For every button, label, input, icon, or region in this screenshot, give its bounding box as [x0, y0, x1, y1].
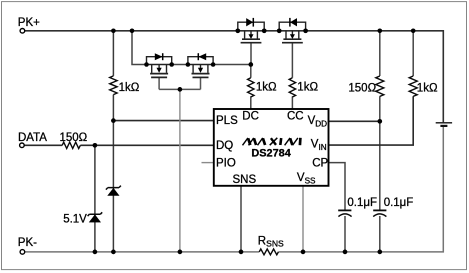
resistor 1k (CC): [289, 78, 295, 97]
resistor 1k (DC): [248, 78, 254, 97]
resistor 150 (VDD): [376, 76, 384, 96]
node Q3 left: [144, 62, 149, 67]
wire PK- bottom rail: [25, 126, 444, 252]
node rail-1k right: [411, 29, 416, 34]
svg-text:DATA: DATA: [18, 132, 47, 144]
zener diode 5.1V: [88, 212, 103, 222]
battery cell: [436, 123, 452, 126]
svg-text:1kΩ: 1kΩ: [119, 82, 140, 94]
wire small FET gates common: [159, 77, 200, 89]
node Q3 right: [169, 62, 174, 67]
node Q2 right: [303, 28, 308, 33]
svg-text:PK+: PK+: [18, 17, 40, 29]
wire cap C1 bottom to rail: [344, 216, 346, 252]
node rail VSS: [301, 250, 306, 255]
MOSFET Q3 (small, diode right): [147, 53, 172, 77]
node DQ: [93, 143, 98, 148]
resistor 1k (PK+ to PLS): [110, 76, 117, 95]
wire DQ node down through 5.1V zener to PK-: [94, 145, 96, 252]
svg-text:PLS: PLS: [216, 115, 238, 127]
capacitor C2 0.1uF: [373, 210, 386, 216]
wire cap C2 bottom to rail: [379, 216, 381, 252]
MAXIM logo: [243, 138, 301, 146]
svg-text:1kΩ: 1kΩ: [297, 82, 318, 94]
IC U1 DS2784: [214, 109, 329, 186]
wire FET Q2 gate to resistor to CC pin: [291, 43, 293, 109]
node rail zener1: [111, 250, 116, 255]
svg-text:1kΩ: 1kΩ: [417, 82, 438, 94]
node rail gates: [178, 250, 183, 255]
node gates: [178, 87, 183, 92]
node Q2 left: [277, 28, 282, 33]
svg-text:0.1μF: 0.1μF: [384, 197, 414, 209]
wire PLS: [113, 120, 213, 122]
wire VDD to 150 node: [329, 120, 380, 122]
wire 1k top to rail: [412, 31, 414, 76]
node rail SNS: [239, 250, 244, 255]
terminal DATA: [20, 143, 25, 148]
svg-text:0.1μF: 0.1μF: [347, 197, 377, 209]
wire small FET2 to DC node: [213, 64, 251, 66]
node rail-1k left: [111, 29, 116, 34]
svg-text:CP: CP: [312, 157, 328, 169]
wire DC node to resistor to DC pin: [250, 65, 252, 109]
svg-text:PK-: PK-: [18, 237, 37, 249]
svg-text:DS2784: DS2784: [251, 147, 290, 159]
svg-text:150Ω: 150Ω: [348, 82, 376, 94]
node Q1 right: [262, 28, 267, 33]
resistor 1k (VIN): [409, 76, 417, 96]
node rail-150: [378, 29, 383, 34]
node rail zener2: [93, 250, 98, 255]
svg-text:SNS: SNS: [233, 174, 257, 186]
zener diode (PLS line): [106, 186, 121, 196]
node rail C1: [343, 250, 348, 255]
svg-text:5.1V: 5.1V: [63, 213, 87, 225]
svg-text:1kΩ: 1kΩ: [256, 82, 277, 94]
wire branch to small FET pair: [132, 31, 147, 65]
wire CP to cap C1: [329, 163, 345, 211]
node Q1 left: [235, 28, 240, 33]
node rail-smallFET branch: [130, 29, 135, 34]
node VDD: [377, 119, 382, 124]
node Q4 left: [186, 62, 191, 67]
node Q4 right: [211, 62, 216, 67]
MOSFET Q1 (large, diode right): [238, 18, 264, 43]
terminal PK-: [20, 250, 25, 255]
wire 150 branch: rail to resistor to VDD node to cap C2: [379, 31, 381, 210]
resistor RSNS: [259, 249, 278, 255]
resistor 150 (DATA): [62, 142, 80, 148]
MOSFET Q2 (large, diode left): [279, 18, 305, 43]
svg-text:150Ω: 150Ω: [60, 132, 88, 144]
wire SNS down: [240, 186, 242, 252]
capacitor C1 0.1uF: [338, 210, 351, 216]
wire between small FETs: [172, 64, 188, 66]
node PLS: [111, 118, 116, 123]
wire PIO stub: [202, 162, 214, 164]
node DC: [248, 62, 253, 67]
wire gates node to PK- rail: [179, 89, 181, 252]
svg-text:DC: DC: [242, 110, 259, 122]
wire DATA to DQ: [24, 144, 213, 146]
node rail C2: [377, 250, 382, 255]
svg-text:PIO: PIO: [216, 157, 236, 169]
wire VIN to 1k: [329, 96, 413, 145]
terminal PK+: [20, 29, 25, 34]
wire PK+ top rail to battery: [25, 31, 444, 122]
wire VSS down: [302, 186, 304, 252]
MOSFET Q4 (small, diode left): [188, 53, 213, 77]
wire FET Q1 gate lead: [250, 43, 252, 65]
wire PK+ rail down through 1k to PLS and zener to PK-: [112, 31, 114, 252]
svg-text:CC: CC: [287, 110, 304, 122]
svg-text:DQ: DQ: [216, 140, 233, 152]
